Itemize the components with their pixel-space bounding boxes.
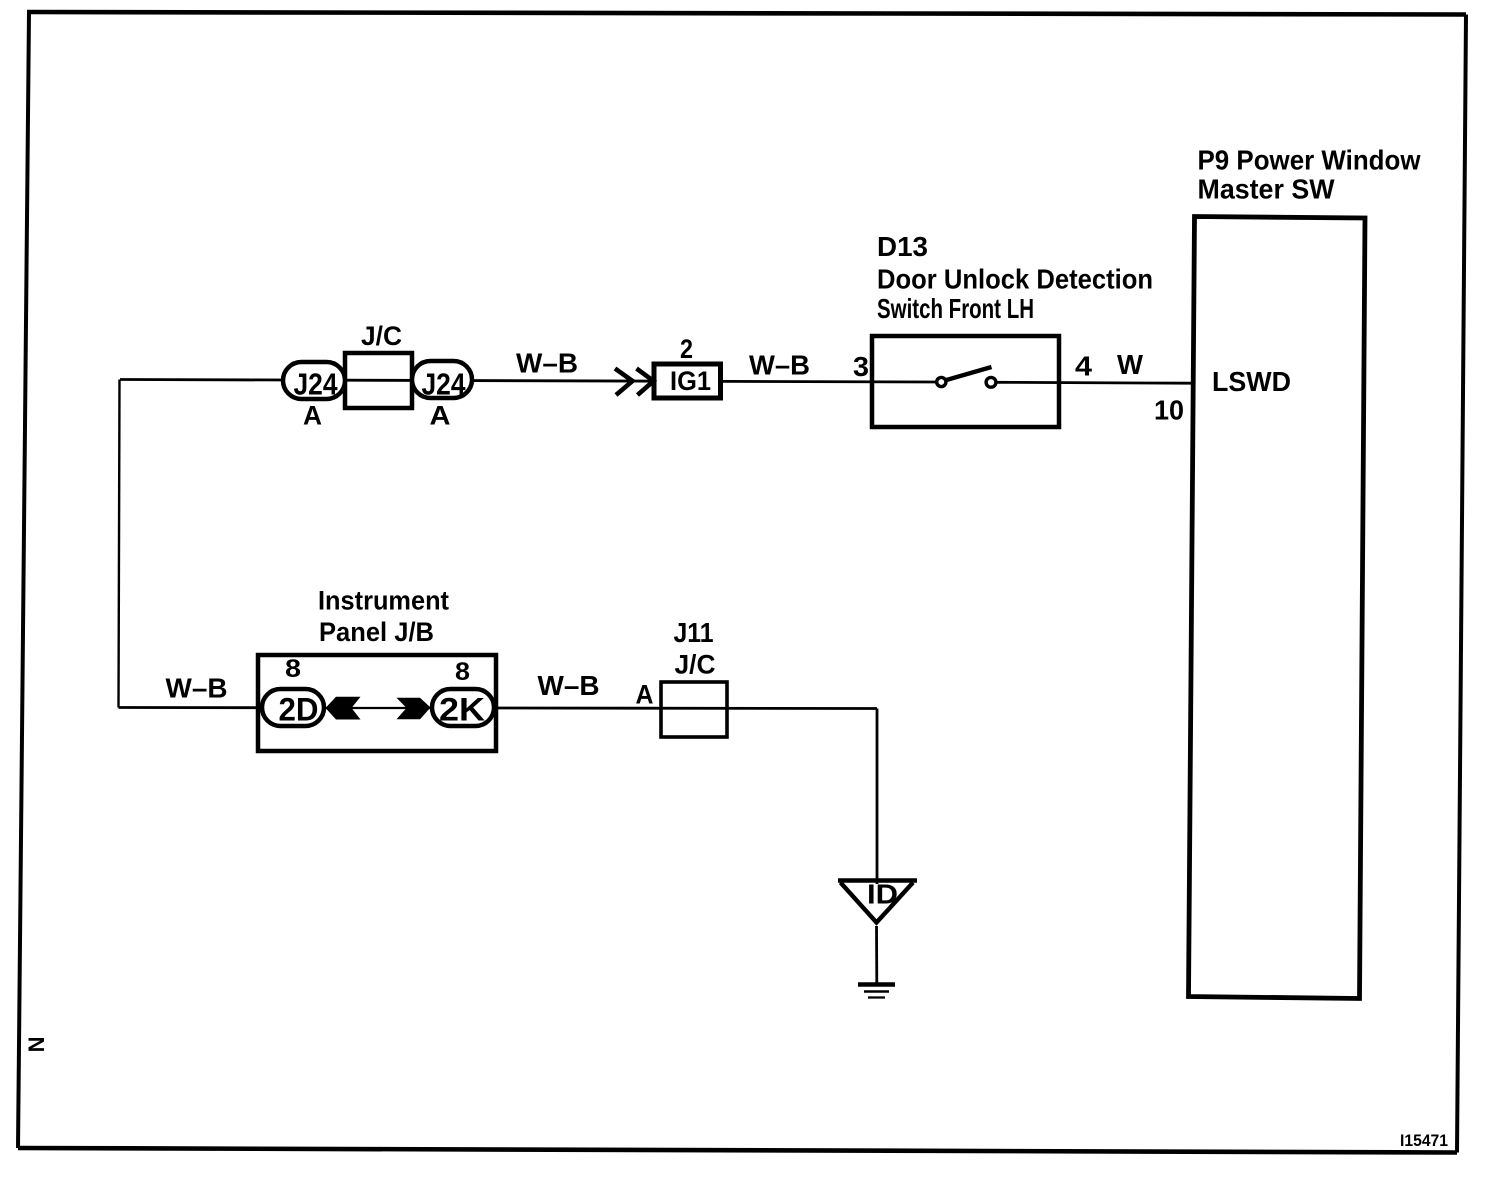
svg-text:ID: ID [867,879,898,910]
svg-text:W–B: W–B [516,348,578,379]
svg-text:W: W [1117,349,1144,380]
svg-text:W–B: W–B [749,350,810,381]
svg-text:J24: J24 [422,367,467,402]
svg-text:J11: J11 [674,617,714,648]
svg-text:J/C: J/C [361,321,402,351]
svg-text:Panel J/B: Panel J/B [319,617,434,647]
svg-text:P9 Power Window: P9 Power Window [1198,145,1421,176]
svg-text:J24: J24 [294,367,339,402]
svg-text:10: 10 [1154,395,1184,426]
svg-text:4: 4 [1075,351,1092,382]
svg-text:W–B: W–B [538,670,600,701]
svg-text:2D: 2D [279,692,319,728]
svg-text:8: 8 [285,655,301,683]
svg-text:J/C: J/C [675,650,716,680]
svg-text:I15471: I15471 [1400,1131,1448,1150]
svg-text:D13: D13 [877,231,928,262]
svg-text:8: 8 [455,658,470,686]
svg-text:2K: 2K [439,692,485,728]
svg-text:2: 2 [680,334,693,364]
svg-text:Master SW: Master SW [1198,174,1336,205]
svg-text:IG1: IG1 [670,366,711,396]
svg-text:3: 3 [853,351,869,382]
svg-text:A: A [303,401,322,431]
svg-text:LSWD: LSWD [1212,366,1291,397]
svg-text:Door Unlock Detection: Door Unlock Detection [877,264,1153,295]
svg-text:A: A [636,680,654,710]
svg-text:A: A [430,401,451,431]
svg-text:Switch Front LH: Switch Front LH [877,293,1034,324]
svg-text:W–B: W–B [166,673,228,704]
svg-text:Instrument: Instrument [318,586,449,616]
svg-text:N: N [24,1037,49,1053]
